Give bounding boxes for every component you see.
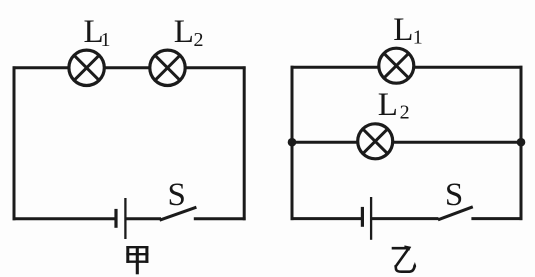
svg-text:S: S <box>445 177 463 213</box>
wire: right vertical (circuit 甲) <box>243 66 246 220</box>
svg-text:1: 1 <box>101 29 111 51</box>
battery B1 positive long plate <box>124 198 126 239</box>
lamp L2 (circuit 乙) <box>358 124 393 159</box>
junction node dot left (circuit 乙) <box>288 138 297 147</box>
label L2 (circuit 乙): letter L <box>378 87 398 123</box>
wire: bottom middle segment (circuit 乙) <box>371 217 438 220</box>
label L1 (circuit 甲): subscript 1 <box>101 29 111 51</box>
label L1 (circuit 乙): letter L <box>393 12 413 48</box>
svg-text:L: L <box>174 14 194 50</box>
lamp L2 (circuit 甲) <box>150 50 185 85</box>
wire: top horizontal (circuit 甲) <box>13 66 246 69</box>
label L2 (circuit 甲): letter L <box>174 14 194 50</box>
wire: bottom right segment (circuit 甲) <box>194 217 246 220</box>
label S (switch S1, circuit 甲) <box>168 177 186 213</box>
battery B2 positive long plate <box>370 197 372 240</box>
label 甲 (Chinese character for left circuit) <box>126 246 148 274</box>
switch S1 lever arm (open) <box>160 207 197 220</box>
lamp L1 (circuit 乙) <box>379 48 414 83</box>
svg-text:2: 2 <box>400 102 410 124</box>
label L2 (circuit 甲): subscript 2 <box>194 29 204 51</box>
battery B2 negative short plate <box>361 207 364 227</box>
svg-text:S: S <box>168 177 186 213</box>
label S (switch S2, circuit 乙) <box>445 177 463 213</box>
wire: top horizontal (circuit 乙) <box>291 66 523 69</box>
label L2 (circuit 乙): subscript 2 <box>400 102 410 124</box>
wire: middle branch horizontal (circuit 乙) <box>292 141 521 144</box>
wire: bottom left segment (circuit 乙) <box>291 217 363 220</box>
wire: bottom left segment (circuit 甲) <box>13 217 116 220</box>
battery B1 negative short plate <box>114 209 117 228</box>
label L1 (circuit 乙): subscript 1 <box>413 26 423 48</box>
svg-text:L: L <box>378 87 398 123</box>
junction node dot right (circuit 乙) <box>517 138 526 147</box>
wire: bottom middle segment (circuit 甲) <box>125 217 161 220</box>
svg-text:1: 1 <box>413 26 423 48</box>
switch S2 lever arm (open) <box>438 207 473 220</box>
lamp L1 (circuit 甲) <box>69 50 104 85</box>
label 乙 (Chinese character for right circuit) <box>392 245 417 271</box>
wire: bottom right segment (circuit 乙) <box>471 217 522 220</box>
wire: left vertical (circuit 乙) <box>291 66 294 220</box>
wire: right vertical (circuit 乙) <box>520 66 523 220</box>
wire: left vertical (circuit 甲) <box>13 66 16 220</box>
svg-text:L: L <box>393 12 413 48</box>
label L1 (circuit 甲): letter L <box>84 14 104 50</box>
svg-text:2: 2 <box>194 29 204 51</box>
